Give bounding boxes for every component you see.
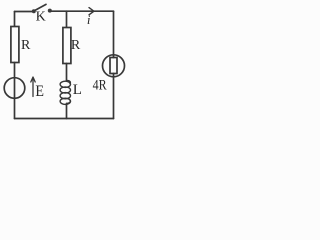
inductor L coil xyxy=(60,81,70,105)
wire middle between R2 and L xyxy=(66,64,68,81)
svg-text:i: i xyxy=(87,12,91,27)
lamp 4R circle xyxy=(103,55,125,77)
svg-text:4R: 4R xyxy=(93,77,107,93)
lamp 4R inner rect xyxy=(110,58,117,74)
wire bottom xyxy=(15,118,114,120)
wire left vertical upper xyxy=(14,12,16,27)
wire top-right segment xyxy=(50,10,114,12)
wire top-left segment xyxy=(15,11,34,13)
wire left vertical lower (through source) xyxy=(14,63,16,119)
svg-text:R: R xyxy=(21,38,31,53)
svg-text:K: K xyxy=(36,10,46,25)
wire right vertical lower xyxy=(113,77,115,119)
svg-text:R: R xyxy=(71,38,81,53)
resistor R1 (left) xyxy=(11,27,19,63)
switch K xyxy=(32,4,52,13)
current arrow i xyxy=(89,8,94,15)
wire right vertical upper xyxy=(113,11,115,55)
wire stub into 4R top xyxy=(113,55,115,58)
svg-text:E: E xyxy=(35,83,44,100)
switch K blade xyxy=(34,4,46,11)
resistor R2 (middle) xyxy=(63,28,71,64)
wire middle vertical lower xyxy=(66,104,68,119)
switch K right terminal dot xyxy=(48,9,52,13)
wire middle vertical upper xyxy=(66,11,68,27)
source E circle xyxy=(4,78,25,99)
svg-text:L: L xyxy=(73,82,82,98)
switch K left terminal dot xyxy=(32,9,36,13)
wire stub out of 4R bottom xyxy=(113,74,115,77)
emf arrow E xyxy=(31,77,35,97)
